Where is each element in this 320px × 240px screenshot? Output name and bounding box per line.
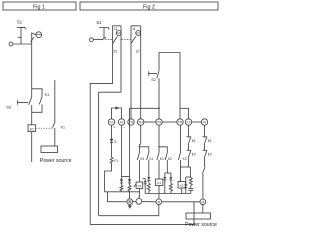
wire block1 right xyxy=(99,26,121,216)
diode branch xyxy=(184,177,187,194)
wire xyxy=(162,121,177,123)
svg-text:A1: A1 xyxy=(110,120,114,124)
A1 chain elbow to bus xyxy=(105,163,112,192)
wire xyxy=(31,112,33,125)
svg-text:T12: T12 xyxy=(138,120,143,124)
svg-text:K2: K2 xyxy=(192,152,196,156)
relay coil K1 xyxy=(155,160,163,199)
svg-text:S2: S2 xyxy=(151,78,156,82)
diode 3 column xyxy=(128,177,131,199)
collector bus xyxy=(145,193,191,195)
terminal T11 xyxy=(128,119,134,125)
svg-text:11: 11 xyxy=(132,27,136,31)
left bottom bus xyxy=(105,191,140,193)
reset loop right xyxy=(179,53,181,119)
relay coil K3 xyxy=(134,160,143,199)
node lamp symbol xyxy=(32,32,42,44)
wire left rail xyxy=(31,44,33,89)
svg-text:+: + xyxy=(113,126,115,130)
svg-text:T31: T31 xyxy=(157,120,162,124)
relay coil K2 xyxy=(178,182,186,194)
wire xyxy=(31,132,33,162)
svg-text:K1: K1 xyxy=(30,127,34,131)
wire block2 left to T11 xyxy=(130,26,132,119)
branch to 13 xyxy=(180,108,189,119)
terminal 13 lower xyxy=(156,199,162,205)
svg-text:Power source: Power source xyxy=(40,158,72,164)
svg-text:Fig 1: Fig 1 xyxy=(33,4,45,10)
output chain 2 contacts xyxy=(203,125,212,167)
svg-text:K1: K1 xyxy=(208,139,212,143)
wire xyxy=(162,201,200,203)
output chain 1 contacts xyxy=(181,125,196,177)
svg-text:S2: S2 xyxy=(6,105,12,110)
terminal T31 xyxy=(156,119,162,125)
internal bridge wire xyxy=(122,176,130,178)
Fig 1 title box xyxy=(3,2,76,10)
svg-text:K3: K3 xyxy=(138,184,142,188)
wire xyxy=(142,201,156,203)
reset loop left with S2 xyxy=(149,53,159,119)
wire xyxy=(93,39,103,41)
svg-text:K3: K3 xyxy=(183,157,187,161)
contact group G2 xyxy=(157,125,172,161)
bottom terminal xyxy=(136,199,142,205)
contact block 11-12 xyxy=(131,26,141,54)
pushbutton S1 actuator xyxy=(17,27,34,44)
contact S2 xyxy=(18,89,32,113)
wire xyxy=(133,201,136,203)
contact group G1 xyxy=(137,125,153,161)
terminal T32 xyxy=(177,119,183,125)
ground arrow xyxy=(128,205,132,209)
svg-text:S1: S1 xyxy=(17,20,23,25)
bus bridge with arrow xyxy=(112,106,122,118)
feedback contact lower xyxy=(202,167,205,199)
terminal A2 xyxy=(118,119,124,125)
fuse F1 xyxy=(110,143,118,164)
svg-text:S1: S1 xyxy=(96,20,102,25)
wire xyxy=(13,43,32,45)
middle loop xyxy=(99,205,159,216)
svg-text:K2: K2 xyxy=(208,152,212,156)
terminal circle xyxy=(90,38,94,42)
diode 2 column xyxy=(120,125,123,192)
contact K1 right rail xyxy=(53,80,56,146)
Fig 2 title box xyxy=(80,2,218,10)
internals: A1 chain diode D xyxy=(110,125,117,144)
diode 4 small xyxy=(143,179,147,194)
wire block2 right to T12 xyxy=(140,26,142,119)
power source box fig2 xyxy=(186,213,211,219)
svg-text:K1: K1 xyxy=(157,181,161,185)
svg-text:K1: K1 xyxy=(61,126,65,130)
svg-text:K2: K2 xyxy=(168,157,172,161)
feedback wire xyxy=(130,107,160,176)
mechanical link dashed xyxy=(105,39,112,41)
svg-text:21: 21 xyxy=(114,27,118,31)
svg-text:A2: A2 xyxy=(120,120,124,124)
svg-text:K3: K3 xyxy=(160,157,164,161)
svg-text:22: 22 xyxy=(113,49,117,53)
terminal A1 xyxy=(108,119,114,125)
terminal T12 xyxy=(138,119,144,125)
svg-text:T32: T32 xyxy=(178,120,183,124)
contact K1 branch xyxy=(32,89,42,113)
wire xyxy=(144,121,156,123)
corner wire to terminal xyxy=(108,192,127,202)
diode pair columns xyxy=(163,160,172,194)
indicator lamp terminal xyxy=(127,199,133,205)
wire xyxy=(192,121,202,123)
pushbutton S1 actuator xyxy=(99,28,109,40)
svg-text:−: − xyxy=(123,125,125,129)
wire to power source xyxy=(202,205,204,213)
terminal 23 xyxy=(201,119,207,125)
terminal 13 xyxy=(185,119,191,125)
relay coil K1 xyxy=(28,125,36,132)
svg-text:K1: K1 xyxy=(192,139,196,143)
svg-text:Fig 2: Fig 2 xyxy=(143,4,155,10)
svg-text:K1: K1 xyxy=(45,93,50,97)
svg-text:Power source: Power source xyxy=(185,222,217,228)
contact K3 single xyxy=(178,125,186,181)
diode resistor column left of K1 xyxy=(147,160,150,194)
terminal circle xyxy=(9,42,13,46)
terminal 14 xyxy=(200,199,206,205)
svg-text:K3: K3 xyxy=(140,157,144,161)
power source box fig1 xyxy=(41,146,58,153)
svg-text:12: 12 xyxy=(135,49,139,53)
wire block1 left xyxy=(90,26,112,225)
resistor capacitor branch xyxy=(188,177,193,194)
reset loop top xyxy=(159,52,180,54)
svg-text:F1: F1 xyxy=(114,159,118,163)
outer loop bottom xyxy=(90,202,194,225)
contact block 21-22 xyxy=(112,26,121,54)
svg-text:K1: K1 xyxy=(150,157,154,161)
mechanical link dashed xyxy=(36,127,53,129)
svg-text:K2: K2 xyxy=(180,184,184,188)
